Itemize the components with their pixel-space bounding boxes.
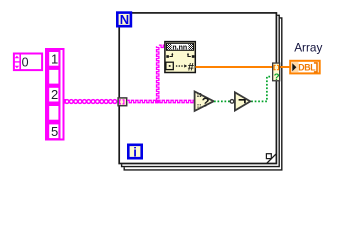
- svg-text:i: i: [133, 144, 137, 159]
- svg-text:?: ?: [202, 94, 210, 109]
- wire: string branch up to conversion node: [157, 46, 159, 100]
- svg-text:DBL: DBL: [298, 62, 316, 72]
- Empty String/Path? node: [195, 92, 214, 111]
- for loop structure border: [119, 13, 282, 170]
- wire: string from tunnel to Empty String/Path?: [127, 100, 194, 102]
- auto-indexing output tunnel with conditional terminal: [273, 63, 280, 83]
- svg-text:5: 5: [51, 124, 58, 139]
- auto-indexing input tunnel: [118, 98, 127, 106]
- string array constant: [46, 49, 66, 140]
- Fract/Exp String To Number node: [165, 42, 195, 74]
- loop iteration terminal i: [128, 144, 141, 159]
- wire: DBL number from node to output tunnel and indicator: [196, 66, 291, 68]
- wire: string array from constant to loop tunnel: [65, 100, 117, 104]
- wire: boolean from Not to conditional terminal: [251, 77, 272, 102]
- svg-text:2: 2: [51, 87, 58, 102]
- svg-text:N: N: [120, 12, 129, 27]
- svg-text:1: 1: [51, 51, 58, 66]
- svg-text:#: #: [188, 62, 194, 74]
- svg-text:0: 0: [22, 56, 29, 70]
- array index display: [14, 53, 43, 71]
- loop autogrow fold corner: [266, 154, 276, 164]
- wire junction: [156, 100, 159, 103]
- indicator terminal: 1D DBL array: [290, 61, 320, 74]
- svg-text:?: ?: [274, 72, 280, 83]
- loop count terminal N: [117, 12, 131, 27]
- svg-text:n.nn: n.nn: [172, 44, 187, 51]
- wire: boolean to Not: [214, 100, 230, 102]
- Not node: [230, 92, 250, 110]
- svg-text:Array: Array: [294, 40, 322, 54]
